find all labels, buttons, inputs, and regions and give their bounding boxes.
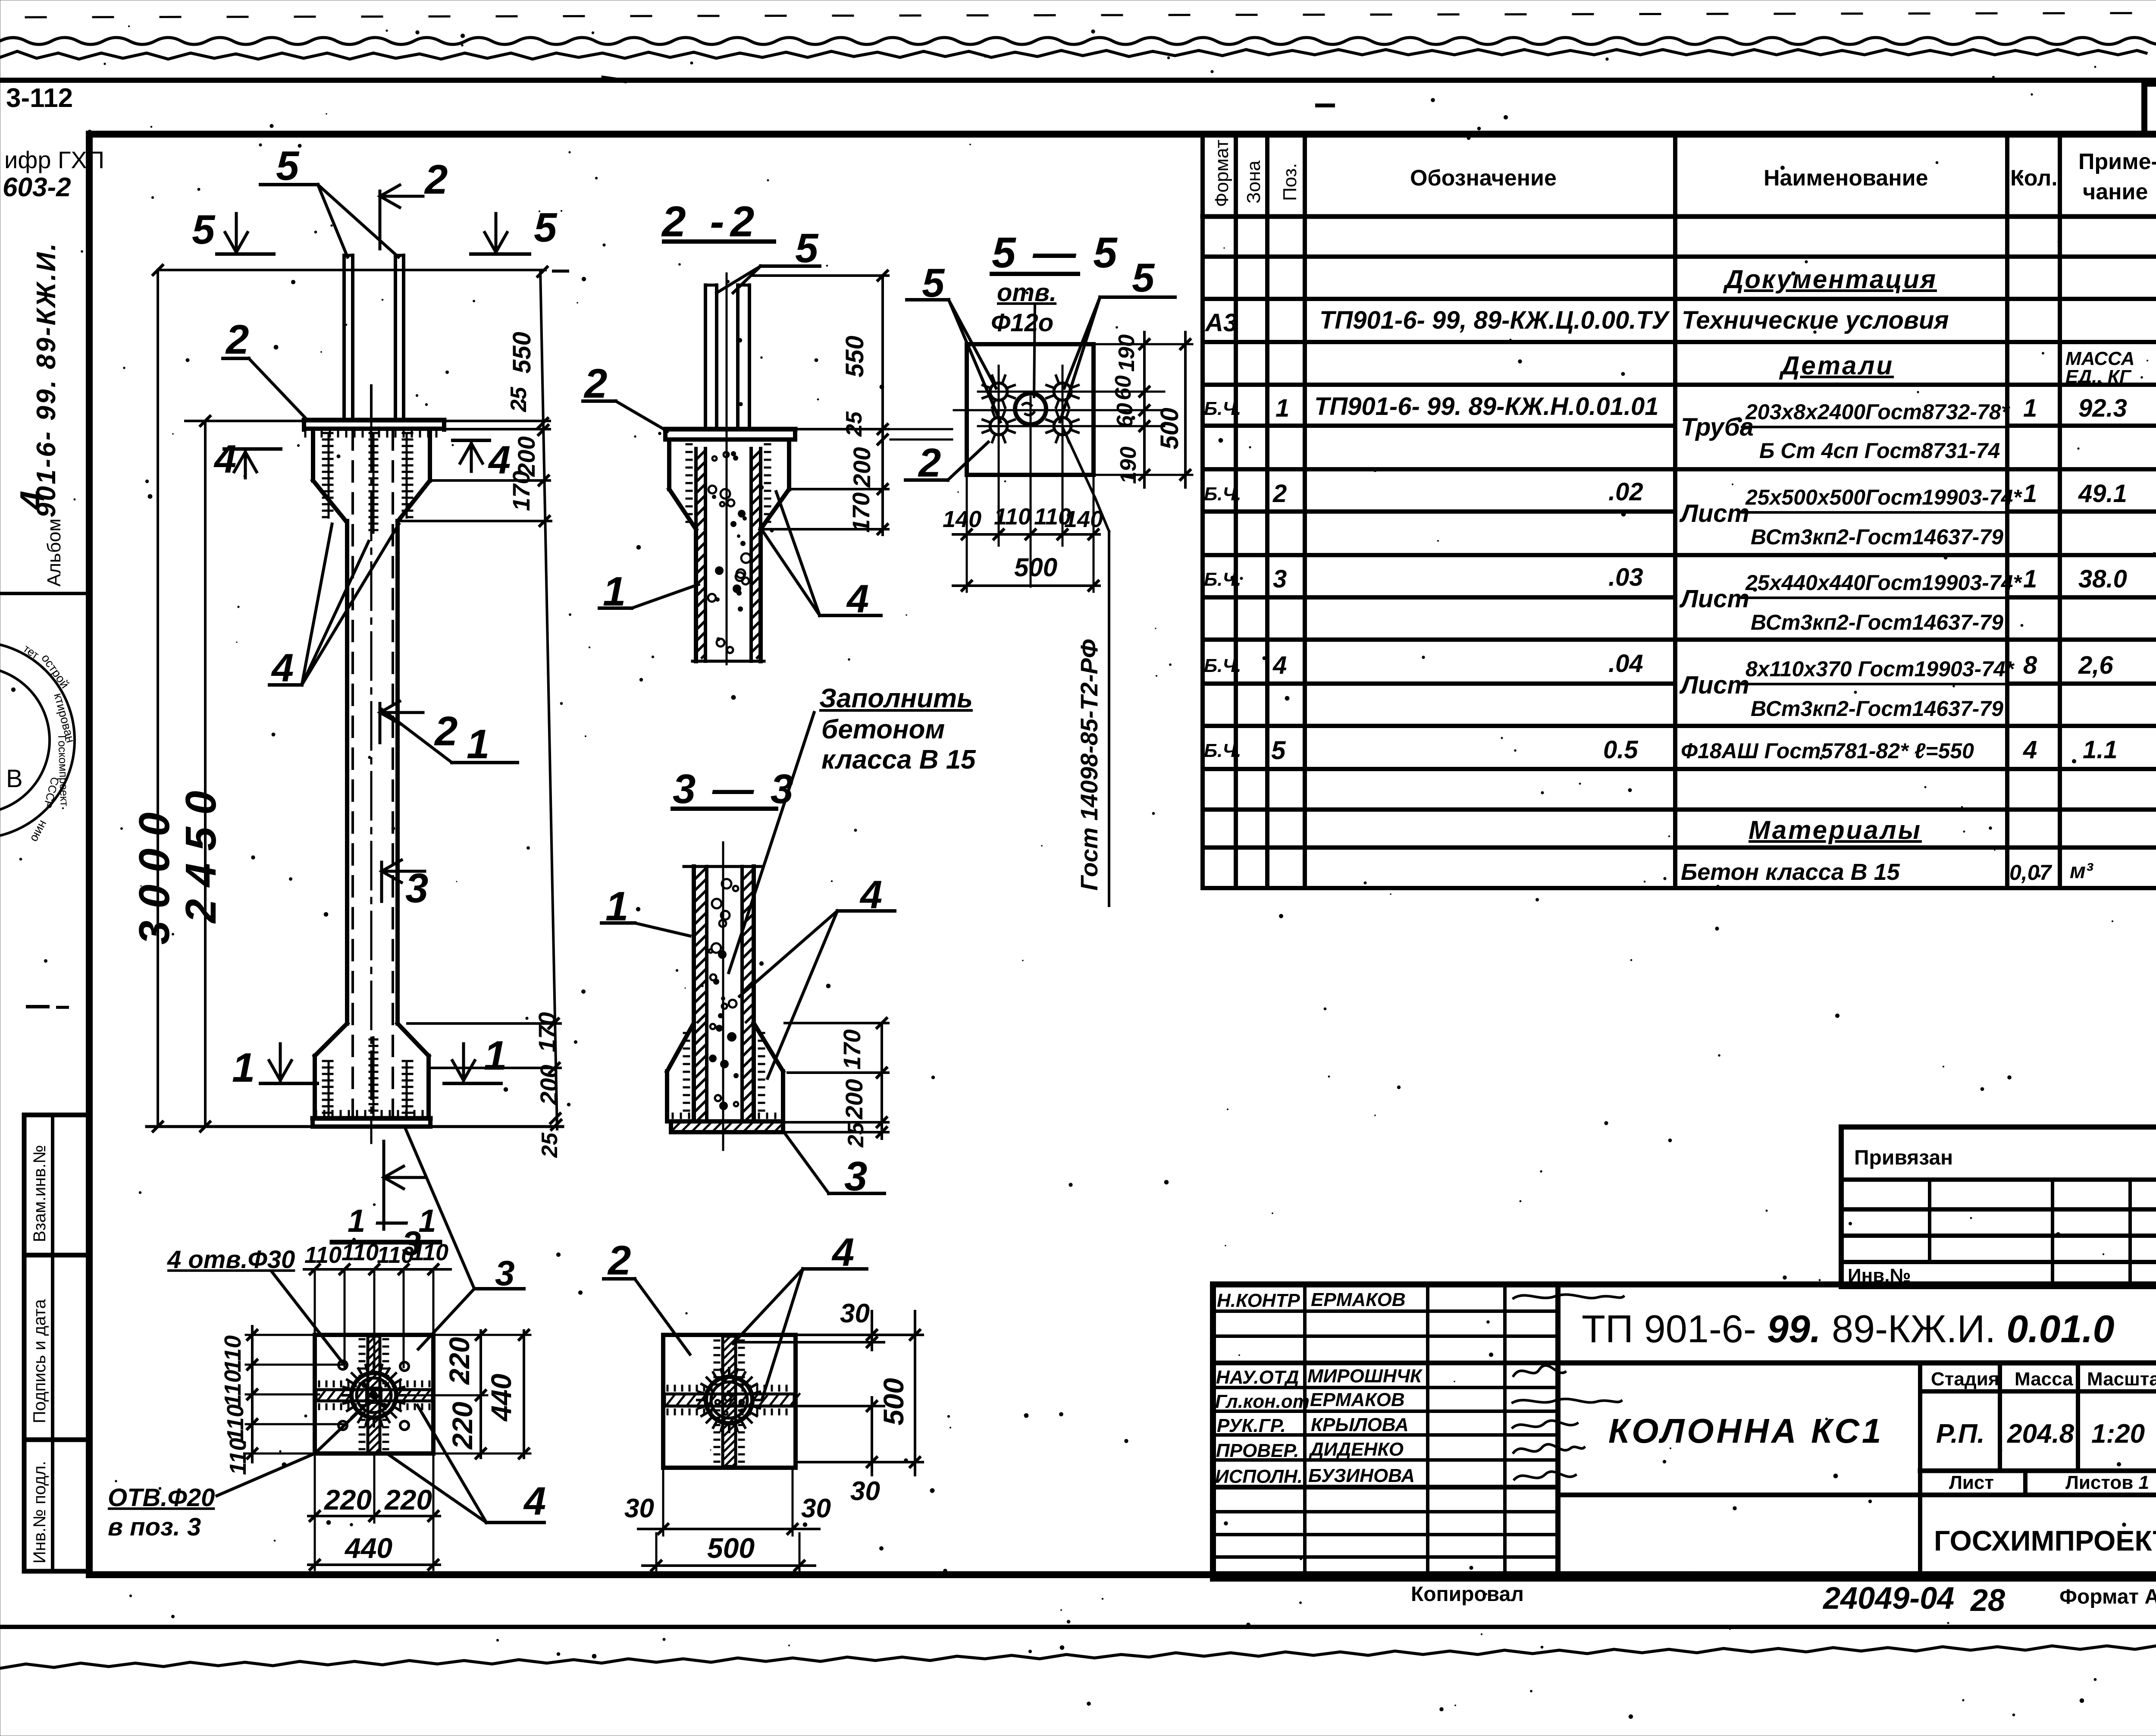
bottom annotations — [1411, 1581, 2156, 1618]
svg-text:чание: чание — [2083, 179, 2148, 204]
svg-text:3: 3 — [495, 1254, 515, 1293]
svg-text:110: 110 — [220, 1370, 246, 1407]
svg-text:м³: м³ — [2070, 859, 2093, 883]
svg-text:1: 1 — [2023, 394, 2037, 422]
torn paper top edge — [0, 50, 2146, 59]
svg-text:4: 4 — [2023, 736, 2037, 764]
svg-text:Б.Ч.: Б.Ч. — [1204, 569, 1241, 590]
scan noise speckles — [726, 280, 730, 283]
svg-text:2,6: 2,6 — [2078, 651, 2113, 679]
svg-text:60: 60 — [1112, 403, 1138, 428]
svg-text:25: 25 — [537, 1132, 562, 1158]
svg-text:Документация: Документация — [1723, 265, 1937, 294]
svg-text:Ф18АШ Гост5781-82* ℓ=550: Ф18АШ Гост5781-82* ℓ=550 — [1681, 739, 1974, 763]
plan 4-4 leader 4 — [733, 1231, 867, 1398]
svg-text:603-2: 603-2 — [3, 173, 71, 202]
svg-text:220: 220 — [384, 1484, 432, 1516]
section 5-5 leader 2 — [906, 440, 988, 485]
svg-text:170: 170 — [847, 493, 874, 533]
svg-text:.03: .03 — [1608, 563, 1643, 591]
main elevation: head block with weld combs — [313, 430, 430, 533]
svg-text:200: 200 — [848, 447, 875, 488]
top rule line — [0, 78, 2156, 83]
svg-text:Гл.кон.от: Гл.кон.от — [1215, 1391, 1310, 1412]
plan 1-1 title — [332, 1203, 440, 1242]
svg-text:Масса: Масса — [2015, 1369, 2073, 1390]
svg-text:1.1: 1.1 — [2083, 736, 2118, 764]
svg-text:А3: А3 — [1204, 309, 1237, 337]
svg-text:Детали: Детали — [1779, 351, 1894, 380]
svg-text:БУЗИНОВА: БУЗИНОВА — [1308, 1465, 1415, 1486]
svg-text:24049-04: 24049-04 — [1822, 1581, 1954, 1616]
svg-text:4: 4 — [523, 1479, 546, 1523]
svg-text:ВСт3кп2-Гост14637-79: ВСт3кп2-Гост14637-79 — [1751, 525, 2003, 549]
svg-text:220: 220 — [323, 1484, 372, 1516]
svg-text:3: 3 — [1273, 565, 1287, 593]
svg-text:Масштаб: Масштаб — [2087, 1369, 2156, 1390]
note: fill with concrete B15 — [729, 684, 976, 973]
svg-text:ПРОВЕР.: ПРОВЕР. — [1216, 1440, 1299, 1461]
svg-text:140: 140 — [943, 506, 981, 532]
svg-text:Листов 1: Листов 1 — [2065, 1472, 2149, 1493]
svg-text:2 -2: 2 -2 — [661, 198, 760, 246]
section 5-5 leader 5 right — [1060, 255, 1175, 422]
plan 4-4 view — [663, 1335, 799, 1468]
svg-text:0,07: 0,07 — [2009, 860, 2053, 885]
section 2-2 view — [665, 273, 795, 664]
svg-text:110: 110 — [342, 1240, 379, 1265]
svg-text:25: 25 — [506, 386, 531, 412]
svg-text:110: 110 — [411, 1240, 448, 1265]
svg-text:Обозначение: Обозначение — [1410, 166, 1557, 191]
svg-text:49.1: 49.1 — [2078, 480, 2127, 508]
svg-text:тет: тет — [21, 642, 42, 662]
svg-text:1: 1 — [232, 1045, 255, 1091]
svg-text:25х500х500Гост19903-74*: 25х500х500Гост19903-74* — [1745, 485, 2022, 509]
section 5-5 hole label — [991, 279, 1056, 397]
svg-text:ГОСХИМПРОЕКТ: ГОСХИМПРОЕКТ — [1934, 1525, 2156, 1557]
section 2-2 dims — [752, 271, 888, 535]
svg-text:1: 1 — [2023, 565, 2037, 593]
left signature grid — [1213, 1284, 1558, 1579]
signatures squiggles — [1513, 1295, 1623, 1479]
plan 4-4 leader 2 — [604, 1237, 690, 1354]
section 2-2 leader 4 — [762, 492, 881, 621]
svg-text:5: 5 — [192, 207, 216, 253]
main elevation: anchor bolt stubs (pos.5) — [344, 255, 404, 420]
svg-text:25: 25 — [842, 411, 867, 437]
plan 1-1 view — [315, 1335, 433, 1453]
main elevation: column shaft (pos.1 pipe) — [347, 423, 398, 1143]
main elevation: section mark 5 top-right — [471, 204, 558, 254]
main elevation: top plate (pos.2) — [304, 420, 444, 436]
top edge faint dashed line — [26, 13, 2156, 17]
main elevation: dimension lines — [147, 265, 563, 1131]
svg-text:3: 3 — [405, 865, 428, 911]
svg-text:ифр ГХП: ифр ГХП — [4, 146, 104, 173]
round stamp (partially visible) — [0, 642, 78, 844]
section 5-5 view — [954, 344, 1164, 587]
svg-text:1 — 1: 1 — 1 — [348, 1203, 437, 1239]
svg-text:5: 5 — [795, 225, 819, 271]
main elevation: section mark 3 lower — [384, 1141, 425, 1262]
svg-text:Взам.инв.№: Взам.инв.№ — [30, 1145, 49, 1242]
svg-text:5: 5 — [534, 204, 558, 251]
svg-text:38.0: 38.0 — [2078, 565, 2127, 593]
main elevation: leader 2 to plate — [223, 317, 307, 420]
section 5-5 leader 5 left — [907, 260, 1000, 422]
main elevation: section mark 4 left — [213, 437, 281, 481]
leader 3: base plate & plan 1-1 plate (shared label) — [405, 1128, 524, 1349]
svg-text:Гост 14098-85-Т2-РФ: Гост 14098-85-Т2-РФ — [1075, 639, 1103, 891]
section 3-3 dims — [785, 1018, 888, 1148]
svg-text:30: 30 — [840, 1299, 870, 1328]
svg-text:30: 30 — [624, 1494, 654, 1523]
svg-text:60: 60 — [1111, 375, 1136, 400]
svg-text:500: 500 — [707, 1532, 755, 1564]
svg-text:4: 4 — [213, 437, 236, 481]
svg-text:8: 8 — [2023, 651, 2037, 679]
svg-text:КОЛОННА КС1: КОЛОННА КС1 — [1608, 1412, 1883, 1450]
svg-text:Р.П.: Р.П. — [1936, 1419, 1985, 1449]
section 5-5 right dims — [1094, 332, 1192, 487]
svg-text:Ф12о: Ф12о — [991, 309, 1053, 337]
svg-text:Формат Аз: Формат Аз — [2059, 1585, 2156, 1608]
section 5-5 weld designation leader — [1062, 427, 1109, 906]
svg-text:200: 200 — [535, 1065, 562, 1105]
svg-text:Наименование: Наименование — [1764, 166, 1928, 191]
svg-text:Лист: Лист — [1679, 499, 1749, 527]
svg-text:РУК.ГР.: РУК.ГР. — [1217, 1415, 1286, 1436]
svg-text:Заполнить: Заполнить — [819, 684, 973, 713]
bottom outer rule — [0, 1625, 2156, 1629]
svg-text:190: 190 — [1114, 334, 1139, 372]
svg-text:1: 1 — [467, 721, 489, 767]
svg-text:.04: .04 — [1608, 650, 1643, 678]
main elevation: section mark 2 top — [380, 157, 448, 249]
section 3-3 title — [673, 766, 796, 812]
svg-text:класса В 15: класса В 15 — [821, 745, 976, 775]
svg-text:5 — 5: 5 — 5 — [992, 229, 1120, 277]
svg-text:ВСт3кп2-Гост14637-79: ВСт3кп2-Гост14637-79 — [1751, 697, 2003, 721]
svg-text:4 отв.Ф30: 4 отв.Ф30 — [167, 1246, 295, 1274]
table body (handwritten entries) — [1204, 265, 2134, 885]
svg-text:Копировал: Копировал — [1411, 1583, 1524, 1606]
section 3-3 leader 4 — [740, 873, 895, 1078]
svg-text:Альбом: Альбом — [44, 518, 65, 587]
svg-text:Лист: Лист — [1949, 1472, 1994, 1493]
svg-text:901-6- 99. 89-КЖ.И.: 901-6- 99. 89-КЖ.И. — [31, 242, 61, 518]
svg-text:Подпись и дата: Подпись и дата — [30, 1299, 49, 1423]
svg-text:110: 110 — [225, 1438, 251, 1475]
section 2-2 leader 5 — [717, 225, 820, 293]
svg-text:1: 1 — [484, 1033, 507, 1079]
svg-text:1: 1 — [2023, 480, 2037, 508]
section 2-2 leader 2 — [583, 361, 667, 431]
section 3-3 view — [667, 842, 783, 1150]
section 5-5 title — [992, 229, 1120, 277]
svg-text:Б.Ч.: Б.Ч. — [1204, 483, 1241, 505]
section 2-2 title — [661, 198, 774, 246]
svg-text:550: 550 — [508, 332, 536, 374]
svg-text:500: 500 — [1156, 408, 1184, 449]
svg-text:2: 2 — [225, 317, 249, 363]
sheet number box 27 — [2144, 84, 2156, 134]
svg-text:4: 4 — [1272, 651, 1287, 679]
section 3-3 leader 1 — [602, 883, 690, 936]
svg-text:3000: 3000 — [130, 801, 179, 945]
torn paper top edge (upper scallops) — [0, 35, 2156, 44]
main elevation: leader 4 to head ribs — [269, 524, 399, 690]
svg-text:ЕД., КГ: ЕД., КГ — [2065, 366, 2132, 387]
svg-text:ОТВ.Ф20: ОТВ.Ф20 — [108, 1484, 215, 1512]
main elevation: dimension labels — [130, 332, 562, 1158]
svg-text:203х8х2400Гост8732-78*: 203х8х2400Гост8732-78* — [1745, 400, 2011, 424]
plan 1-1 leader: hole d20 in pos.3 — [108, 1401, 370, 1541]
svg-text:25: 25 — [843, 1122, 868, 1148]
svg-text:440: 440 — [344, 1532, 392, 1564]
signature rows text — [1215, 1289, 1423, 1487]
plan 1-1 leader 4 — [388, 1405, 546, 1523]
svg-text:500: 500 — [1014, 553, 1057, 582]
svg-text:Поз.: Поз. — [1279, 163, 1300, 201]
svg-text:8х110х370 Гост19903-74*: 8х110х370 Гост19903-74* — [1745, 657, 2015, 681]
svg-text:3-112: 3-112 — [6, 83, 73, 113]
svg-text:В: В — [6, 765, 23, 793]
svg-text:30: 30 — [801, 1494, 831, 1523]
svg-text:2: 2 — [434, 708, 458, 754]
svg-text:190: 190 — [1116, 446, 1141, 484]
svg-text:2450: 2450 — [177, 779, 225, 924]
main elevation: section mark 1 right — [444, 1033, 507, 1083]
plan 1-1 leader: 4 holes d30 — [167, 1246, 343, 1363]
svg-text:110: 110 — [377, 1242, 414, 1268]
main elevation: base block — [313, 1023, 430, 1127]
svg-text:Приме-: Приме- — [2078, 149, 2156, 174]
svg-text:Н.КОНТР: Н.КОНТР — [1217, 1290, 1300, 1311]
torn paper bottom edge — [0, 1645, 2156, 1668]
svg-text:0.5: 0.5 — [1603, 736, 1638, 764]
svg-text:ВСт3кп2-Гост14637-79: ВСт3кп2-Гост14637-79 — [1751, 610, 2003, 634]
main elevation: section mark 5 top-left — [192, 207, 274, 254]
plan 1-1 dims — [220, 1240, 530, 1570]
svg-text:ТП 901-6- 99. 89-КЖ.И. 0.01.0: ТП 901-6- 99. 89-КЖ.И. 0.01.0 — [1582, 1308, 2115, 1351]
svg-text:Госкомпроект: Госкомпроект — [56, 735, 71, 807]
svg-text:4: 4 — [13, 491, 51, 511]
svg-text:Стадия: Стадия — [1931, 1369, 1999, 1390]
svg-text:204.8: 204.8 — [2007, 1419, 2075, 1449]
section 2-2 leader 1 — [599, 568, 699, 615]
svg-text:2: 2 — [1272, 480, 1287, 508]
svg-text:Зона: Зона — [1243, 160, 1264, 204]
svg-text:4: 4 — [488, 438, 511, 482]
svg-text:Материалы: Материалы — [1749, 816, 1922, 844]
bottom-left sidebar boxes — [24, 1115, 90, 1571]
main elevation: leader 5 to bolt stubs — [260, 143, 398, 257]
svg-text:110: 110 — [222, 1404, 248, 1441]
svg-text:170: 170 — [838, 1030, 865, 1070]
svg-text:.02: .02 — [1608, 478, 1643, 506]
main elevation: section mark 2 bottom — [380, 701, 458, 754]
svg-text:Технические условия: Технические условия — [1682, 306, 1949, 334]
svg-text:220: 220 — [446, 1402, 478, 1450]
svg-text:Кол.: Кол. — [2010, 166, 2058, 191]
svg-text:30: 30 — [850, 1476, 880, 1506]
main drawing frame — [89, 134, 2156, 1575]
svg-text:Бетон класса В 15: Бетон класса В 15 — [1681, 859, 1900, 885]
main elevation: leader 1 to pipe — [382, 709, 517, 767]
svg-text:Привязан: Привязан — [1854, 1146, 1953, 1169]
svg-text:140: 140 — [1064, 506, 1103, 532]
svg-text:440: 440 — [485, 1374, 517, 1422]
svg-text:ИСПОЛН.: ИСПОЛН. — [1215, 1466, 1303, 1487]
svg-text:ТП901-6- 99, 89-КЖ.Ц.0.00.ТУ: ТП901-6- 99, 89-КЖ.Ц.0.00.ТУ — [1319, 306, 1670, 334]
svg-text:170: 170 — [533, 1012, 561, 1052]
svg-text:НАУ.ОТД: НАУ.ОТД — [1216, 1367, 1299, 1388]
svg-text:92.3: 92.3 — [2078, 394, 2127, 422]
svg-text:КРЫЛОВА: КРЫЛОВА — [1311, 1414, 1409, 1435]
svg-text:110: 110 — [304, 1242, 342, 1268]
svg-text:500: 500 — [877, 1378, 909, 1425]
svg-text:25х440х440Гост19903-74*: 25х440х440Гост19903-74* — [1745, 571, 2022, 595]
svg-text:200: 200 — [840, 1079, 868, 1120]
svg-text:5: 5 — [1132, 255, 1155, 300]
svg-text:ЕРМАКОВ: ЕРМАКОВ — [1310, 1389, 1405, 1410]
svg-text:1:20: 1:20 — [2091, 1419, 2145, 1449]
svg-text:в поз. 3: в поз. 3 — [108, 1513, 201, 1541]
svg-text:5: 5 — [276, 143, 300, 189]
main elevation: section mark 4 right — [453, 438, 511, 482]
svg-text:Б.Ч.: Б.Ч. — [1204, 398, 1241, 419]
svg-text:ДИДЕНКО: ДИДЕНКО — [1308, 1439, 1404, 1460]
svg-text:170: 170 — [508, 471, 535, 511]
svg-text:бетоном: бетоном — [821, 715, 945, 744]
svg-text:28: 28 — [1970, 1583, 2005, 1618]
svg-text:ТП901-6- 99. 89-КЖ.Н.0.01.01: ТП901-6- 99. 89-КЖ.Н.0.01.01 — [1314, 392, 1659, 421]
projection lines between 2-2 and 5-5 — [890, 428, 952, 430]
svg-text:Лист: Лист — [1679, 585, 1749, 613]
svg-text:2: 2 — [607, 1237, 631, 1284]
svg-text:острой: острой — [39, 652, 72, 691]
plan 4-4 dims — [624, 1299, 923, 1571]
svg-text:МИРОШНЧК: МИРОШНЧК — [1307, 1366, 1423, 1387]
svg-text:ЕРМАКОВ: ЕРМАКОВ — [1311, 1289, 1406, 1310]
section 5-5 bottom dims — [943, 475, 1103, 592]
svg-text:Лист: Лист — [1679, 671, 1749, 699]
svg-text:110: 110 — [220, 1335, 246, 1372]
svg-text:Б Ст 4сп Гост8731-74: Б Ст 4сп Гост8731-74 — [1759, 439, 2000, 463]
svg-text:110: 110 — [994, 504, 1031, 530]
svg-text:Б.Ч.: Б.Ч. — [1204, 655, 1241, 676]
VIEWS START — [108, 143, 1192, 1571]
stage/mass/scale — [1558, 1363, 2156, 1579]
document number cell — [1558, 1360, 2156, 1366]
svg-text:1: 1 — [1275, 394, 1289, 422]
svg-text:220: 220 — [443, 1337, 475, 1385]
main elevation: section mark 3 upper — [382, 860, 428, 911]
svg-text:5: 5 — [1271, 736, 1286, 765]
svg-text:Инв.№ подл.: Инв.№ подл. — [30, 1461, 49, 1563]
svg-text:Б.Ч.: Б.Ч. — [1204, 740, 1241, 761]
svg-text:550: 550 — [841, 336, 869, 377]
main elevation: section mark 1 left — [232, 1044, 317, 1091]
svg-text:Формат: Формат — [1211, 140, 1232, 207]
section 3-3 leader 3 — [783, 1131, 884, 1199]
svg-text:2: 2 — [424, 157, 448, 203]
svg-text:3 — 3: 3 — 3 — [673, 766, 796, 812]
